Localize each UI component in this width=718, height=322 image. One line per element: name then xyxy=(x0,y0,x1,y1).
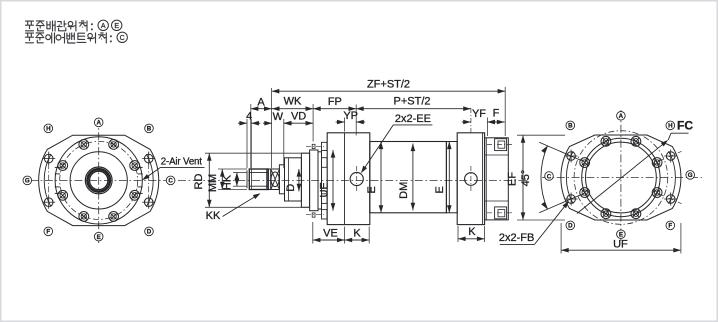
svg-text:2-Air Vent: 2-Air Vent xyxy=(161,157,202,168)
left view vertical centerline xyxy=(98,118,100,244)
svg-text:HK: HK xyxy=(222,174,234,190)
svg-text:G: G xyxy=(688,172,693,179)
svg-text:C: C xyxy=(120,35,125,42)
svg-text:YF: YF xyxy=(472,108,486,120)
left view position letters xyxy=(94,118,103,127)
cap tie rod nut bottom xyxy=(495,207,507,219)
right view inner side arcs xyxy=(669,151,676,204)
svg-text:G: G xyxy=(25,178,30,185)
header korean line 1: standard piping position A E xyxy=(26,21,34,31)
svg-text:A: A xyxy=(101,23,106,30)
left view outer ring circle xyxy=(55,137,142,224)
svg-text:D: D xyxy=(568,223,573,230)
svg-text:E: E xyxy=(97,234,101,241)
rod collar xyxy=(279,165,284,194)
svg-text:A: A xyxy=(96,120,101,127)
svg-text:D: D xyxy=(285,184,297,192)
left view bolt circle xyxy=(60,141,138,219)
svg-text:B: B xyxy=(147,126,152,133)
svg-text:WK: WK xyxy=(284,96,302,108)
piston rod xyxy=(268,169,271,190)
cylinder tube xyxy=(370,142,447,213)
svg-text:RD: RD xyxy=(193,174,205,190)
svg-text:W: W xyxy=(273,111,284,123)
svg-text:K: K xyxy=(353,227,361,239)
right view flange outline xyxy=(561,135,681,220)
head port 2x2-EE xyxy=(350,172,363,185)
svg-text:E: E xyxy=(114,23,119,30)
piston rod thread xyxy=(246,170,248,188)
right view corner mounting holes 2x2-FB xyxy=(666,195,675,204)
svg-text:2x2-FB: 2x2-FB xyxy=(499,232,534,244)
svg-text:YP: YP xyxy=(343,110,358,122)
right view corner hole radial centerlines xyxy=(660,194,682,204)
svg-text:C: C xyxy=(547,173,552,180)
svg-text:A: A xyxy=(619,113,624,120)
right view position letters xyxy=(617,112,626,121)
cap rear extension xyxy=(485,138,509,220)
head flange xyxy=(327,133,370,225)
right view bolts xyxy=(631,136,641,146)
cap flange xyxy=(457,133,484,225)
cap tie rod centerlines xyxy=(487,144,514,146)
svg-text:H: H xyxy=(46,126,51,133)
right view FC diagonal xyxy=(577,141,667,213)
cap port 2x2-EE xyxy=(465,173,478,186)
svg-text:B: B xyxy=(568,123,573,130)
svg-text:F: F xyxy=(46,229,50,236)
svg-text:VE: VE xyxy=(323,227,338,239)
left view bolts xyxy=(109,140,119,150)
svg-text:F: F xyxy=(493,107,500,119)
right view horizontal centerline xyxy=(542,177,702,179)
svg-text:UF: UF xyxy=(613,238,628,250)
svg-text:MM: MM xyxy=(207,174,219,192)
svg-text:45°: 45° xyxy=(520,170,532,187)
rod bushing housing xyxy=(285,158,302,201)
svg-text:2x2-EE: 2x2-EE xyxy=(395,113,431,125)
main horizontal centerline xyxy=(30,179,527,181)
left view vent serrations xyxy=(138,166,143,168)
svg-text:H: H xyxy=(668,123,673,130)
svg-text:P+ST/2: P+ST/2 xyxy=(394,95,431,107)
svg-text:C: C xyxy=(168,178,173,185)
cap tie rod nut top xyxy=(495,139,507,151)
svg-text:UE: UE xyxy=(319,182,331,197)
rod wrench flats xyxy=(271,169,280,190)
cap joint ring xyxy=(446,142,457,213)
svg-text:FC: FC xyxy=(677,119,693,133)
left view inner side arcs xyxy=(146,154,153,207)
gland ring C xyxy=(318,152,322,209)
svg-text:E: E xyxy=(434,186,446,193)
svg-text:FP: FP xyxy=(328,96,342,108)
gland ring A xyxy=(301,153,309,207)
left view bore circles xyxy=(85,167,112,194)
header korean line 2: standard air vent position C xyxy=(26,33,34,43)
left view gland boss circle xyxy=(70,152,127,209)
left view corner hole centerlines xyxy=(148,152,150,210)
svg-text:E: E xyxy=(366,186,378,193)
svg-text:VD: VD xyxy=(291,111,306,123)
left view flange outline xyxy=(39,135,159,225)
right view 45 degree arc xyxy=(541,146,548,209)
right view 45 degree rays xyxy=(539,142,580,160)
right view vertical centerline xyxy=(620,110,622,244)
left view corner mounting holes xyxy=(144,198,153,207)
head tie rod tabs xyxy=(322,142,328,150)
right view bolt circle xyxy=(574,131,668,225)
svg-text:KK: KK xyxy=(206,210,221,222)
svg-text:ZF+ST/2: ZF+ST/2 xyxy=(367,79,410,91)
svg-text:K: K xyxy=(468,226,476,238)
svg-text:D: D xyxy=(147,229,152,236)
svg-text:DM: DM xyxy=(398,182,410,199)
head tie rod centerlines xyxy=(306,145,324,147)
gland ring B xyxy=(310,150,318,211)
svg-text:F: F xyxy=(668,223,672,230)
svg-text:EF: EF xyxy=(507,172,519,186)
right view barrel circles xyxy=(582,138,660,216)
